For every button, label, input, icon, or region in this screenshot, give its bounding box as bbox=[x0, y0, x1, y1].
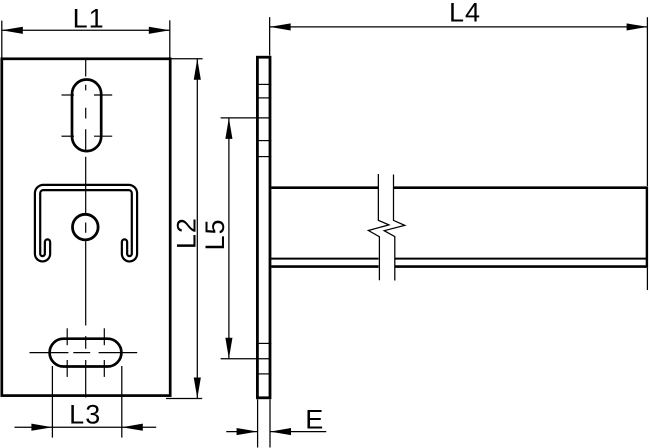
svg-text:E: E bbox=[305, 404, 324, 434]
svg-text:L5: L5 bbox=[200, 218, 230, 250]
svg-text:L4: L4 bbox=[449, 0, 481, 28]
svg-text:L3: L3 bbox=[69, 399, 101, 429]
svg-text:L1: L1 bbox=[73, 4, 105, 34]
svg-text:L2: L2 bbox=[171, 217, 201, 249]
